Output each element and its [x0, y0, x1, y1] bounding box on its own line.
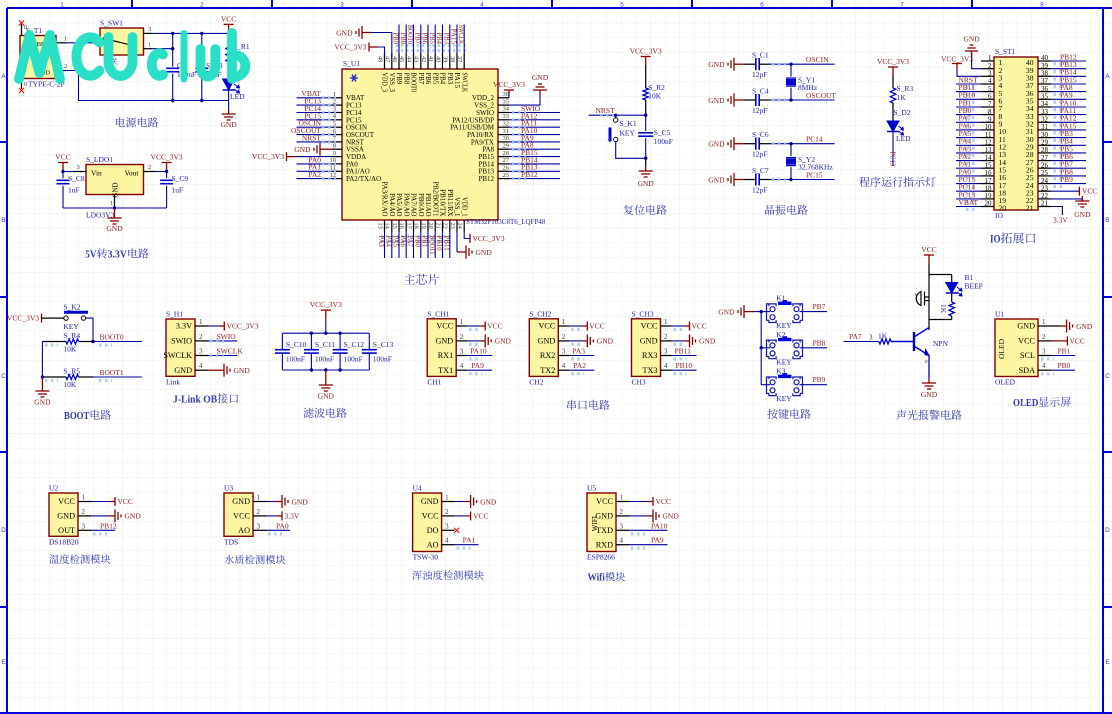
wire net PB5 from ST1.28 — [1051, 152, 1086, 154]
wire LED to R 1K — [951, 275, 953, 283]
svg-text:C: C — [1, 373, 6, 380]
pin H1.2 — [195, 340, 208, 342]
pin ST1.12 — [981, 144, 994, 146]
svg-text:1: 1 — [257, 494, 261, 502]
svg-text:KEY: KEY — [63, 322, 79, 331]
title 按键电路 — [767, 409, 777, 419]
svg-text:BEEP: BEEP — [965, 282, 983, 291]
junction VCC rail C3 — [200, 32, 203, 35]
ground GND for S_C6 — [728, 137, 734, 150]
pin CH3.1 — [661, 325, 672, 327]
power VCC_3V3 at U1 pin24 — [464, 232, 470, 239]
pin CH1.4 — [456, 369, 467, 371]
pin ST1.15 — [981, 167, 994, 169]
svg-text:PA7: PA7 — [849, 332, 862, 341]
wire net PA8 from U1.29 — [509, 148, 560, 150]
pin U1.12 PA2/TX/AO — [332, 178, 342, 180]
wire net PA0 at U3.3 — [266, 529, 290, 531]
ground GND at ST1.22 — [1051, 198, 1082, 200]
svg-text:VCC_3V3: VCC_3V3 — [151, 153, 183, 162]
svg-text:48: 48 — [376, 56, 383, 62]
svg-text:PA2/TX/AO: PA2/TX/AO — [346, 175, 381, 183]
capacitor S_C10 100nF — [281, 333, 283, 349]
chip type marker asterisk — [350, 75, 358, 82]
wire net PB3 from ST1.30 — [1051, 137, 1086, 139]
wire net PA3 to ST1.13 — [956, 152, 981, 154]
wire R1 to LED D1 — [228, 62, 230, 79]
connector CH2 body — [529, 319, 558, 377]
svg-text:S_C9: S_C9 — [172, 174, 189, 183]
pin H1.4 — [195, 369, 208, 371]
svg-text:GND: GND — [435, 337, 453, 346]
pin U1.47 VSS_3 — [391, 54, 393, 70]
ground GND at CH1.2 — [467, 340, 480, 342]
module U3 TDS body — [224, 493, 253, 536]
svg-text:20: 20 — [999, 204, 1007, 213]
wire net PB7 to U1.43 — [420, 25, 422, 54]
svg-text:45: 45 — [398, 56, 405, 62]
module U4 TSW-30 body — [413, 493, 442, 552]
svg-text:S_CH1: S_CH1 — [427, 309, 449, 318]
wire net PA5 to ST1.11 — [956, 137, 981, 139]
svg-text:VCC: VCC — [692, 322, 707, 331]
svg-text:SCL: SCL — [1020, 351, 1035, 360]
svg-text:2: 2 — [200, 2, 204, 9]
svg-text:AO: AO — [427, 540, 439, 549]
resistor S_R3 1K — [890, 88, 895, 103]
wire SW1.1 down to cap C2 branch — [152, 48, 173, 50]
svg-text:U2: U2 — [49, 484, 58, 493]
pin U4.4 — [442, 544, 455, 546]
pin U1.46 PB9 — [398, 54, 400, 70]
svg-text:1: 1 — [148, 41, 151, 48]
svg-text:VCC: VCC — [641, 322, 658, 331]
svg-text:40: 40 — [434, 56, 441, 62]
wire K1 top to NRST — [615, 115, 617, 118]
svg-text:3.3V: 3.3V — [108, 249, 127, 261]
svg-text:PB9: PB9 — [1060, 175, 1073, 184]
junction BOOT0 — [91, 340, 94, 343]
svg-text:3: 3 — [869, 334, 873, 342]
svg-text:OUT: OUT — [58, 526, 75, 535]
pin U1.23 VSS_1 — [456, 220, 458, 232]
svg-text:PB10: PB10 — [676, 361, 693, 370]
pin CH3.3 — [661, 355, 672, 357]
ground GND filter — [319, 380, 333, 391]
wire net OSCOUT to U1.6 — [297, 134, 333, 136]
pin U1.1 VBAT — [332, 97, 342, 99]
svg-text:PB12: PB12 — [100, 521, 117, 530]
connector H1 J-Link body — [166, 319, 195, 376]
wire net PA4 from U1.14 — [391, 232, 393, 259]
svg-text:24: 24 — [456, 223, 463, 230]
svg-text:TXD: TXD — [596, 526, 613, 535]
power VCC_3V3 filter — [321, 310, 331, 319]
wire C2 branch vertical — [172, 33, 174, 66]
wire net PA2 to ST1.14 — [956, 160, 981, 162]
svg-text:100nF: 100nF — [373, 355, 392, 364]
svg-text:100nF: 100nF — [315, 355, 334, 364]
wire net PC15 to ST1.17 — [956, 183, 981, 185]
svg-text:PA5/AO: PA5/AO — [395, 193, 402, 216]
pin ST1.38 — [1038, 75, 1051, 77]
capacitor S_C8 1uF — [62, 172, 64, 179]
svg-text:GND: GND — [495, 337, 512, 346]
svg-text:GND: GND — [921, 390, 938, 399]
pin U5.4 — [616, 544, 629, 546]
svg-text:4: 4 — [480, 2, 484, 9]
svg-text:E: E — [1, 659, 5, 666]
svg-text:VCC: VCC — [538, 322, 555, 331]
wire net PA0 to U1.10 — [297, 163, 333, 165]
svg-text:SWIO: SWIO — [217, 332, 237, 341]
svg-text:2: 2 — [445, 508, 449, 516]
pin ST1.26 — [1038, 167, 1051, 169]
pin U1.31 PA10/RX — [498, 134, 509, 136]
svg-text:CH2: CH2 — [529, 377, 543, 386]
svg-text:10K: 10K — [63, 345, 77, 354]
wire net PC14 to U1.3 — [297, 112, 333, 114]
pin ST1.32 — [1038, 121, 1051, 123]
pin U1.18 PB0/AO — [420, 220, 422, 232]
wire net PB6 to U1.42 — [427, 25, 429, 54]
wire net PA0 to ST1.16 — [956, 175, 981, 177]
wire net BOOT0 — [93, 341, 142, 343]
svg-text:PB10/TX: PB10/TX — [439, 189, 446, 216]
wire net PB12 at U2.3 — [91, 529, 115, 531]
selection dashes bottom pins — [381, 235, 452, 238]
svg-text:GND: GND — [718, 307, 735, 316]
wire NRST — [589, 114, 646, 116]
pin T1 shield bottom — [21, 79, 23, 90]
svg-text:BOOT: BOOT — [64, 410, 90, 422]
pin U1.45 PB8 — [405, 54, 407, 70]
wire net BOOT1 — [93, 376, 142, 378]
svg-text:PB12: PB12 — [478, 175, 494, 183]
pin U1.9 VDDA — [332, 156, 342, 158]
svg-text:J-Link OB: J-Link OB — [173, 394, 217, 406]
wire net SWIO from U1.34 — [509, 112, 560, 114]
svg-text:PB9: PB9 — [813, 375, 826, 384]
svg-text:20: 20 — [985, 200, 993, 208]
svg-text:3: 3 — [199, 348, 203, 356]
svg-text:PA6/AO: PA6/AO — [402, 193, 409, 216]
ground GND at U1 pin8 VSSA — [320, 148, 332, 150]
svg-text:10K: 10K — [648, 92, 662, 101]
svg-text:PA9: PA9 — [651, 536, 664, 545]
svg-text:NPN: NPN — [933, 339, 949, 348]
svg-text:VCC: VCC — [55, 153, 70, 162]
svg-text:1: 1 — [60, 2, 64, 9]
title 声光报警电路 — [896, 410, 906, 420]
ground GND at CH2.2 — [569, 340, 582, 342]
pin SW1.3 — [144, 32, 153, 34]
svg-text:1: 1 — [64, 36, 67, 43]
wire net PB12 from ST1.40 — [1051, 60, 1086, 62]
svg-text:OLED: OLED — [1013, 397, 1038, 409]
wire net PA6 from U1.16 — [405, 232, 407, 259]
svg-text:BOOT0: BOOT0 — [100, 333, 124, 342]
svg-text:16: 16 — [398, 223, 405, 229]
pin U1.19 PB1/AO — [427, 220, 429, 232]
junction rail C3 — [200, 99, 203, 102]
wire VCC_3V3 to R3 — [892, 76, 894, 88]
wire net PA5 from U1.15 — [398, 232, 400, 259]
pin U1.15 PA5/AO — [398, 220, 400, 232]
pin ST1.7 — [981, 106, 994, 108]
svg-text:3.3V: 3.3V — [176, 322, 192, 331]
pin CH2.3 — [558, 355, 569, 357]
svg-text:KEY: KEY — [620, 129, 636, 138]
pin U1.5 OSCIN — [332, 126, 342, 128]
wire net PB8 from ST1.25 — [1051, 175, 1086, 177]
pin U4.3 — [442, 529, 455, 531]
wire net SWCLK to U1.37 — [463, 25, 465, 54]
buzzer B1 BEEP — [916, 292, 921, 306]
pin U1.13 PA3/RX/AO — [384, 220, 386, 232]
resistor S_R4 10K — [42, 341, 66, 343]
pin U1(OLED).3 — [1038, 355, 1051, 357]
svg-text:19: 19 — [420, 223, 427, 229]
wire net VBAT to ST1.20 — [956, 206, 981, 208]
svg-text:PB1: PB1 — [1058, 347, 1071, 356]
wire left bus down — [41, 342, 43, 378]
logo MCUclub — [19, 33, 245, 79]
wire net PA3 — [569, 355, 594, 357]
pin ST1.37 — [1038, 83, 1051, 85]
connector CH3 body — [632, 319, 661, 377]
power VCC_3V3 reset — [641, 57, 651, 66]
svg-text:S_SW1: S_SW1 — [100, 19, 123, 28]
pin U1.21 PB10/TX — [442, 220, 444, 232]
svg-text:3: 3 — [1042, 348, 1046, 356]
svg-text:1K: 1K — [939, 304, 948, 314]
svg-text:23: 23 — [449, 223, 456, 229]
ground GND at H1.4 — [208, 369, 224, 371]
label SW1 value — [104, 58, 111, 64]
svg-text:VCC: VCC — [1070, 336, 1085, 345]
wire net PA12 from ST1.32 — [1051, 121, 1086, 123]
svg-text:PB3: PB3 — [446, 73, 453, 85]
wire filter to GND — [325, 370, 327, 380]
svg-text:1uF: 1uF — [172, 186, 184, 195]
svg-text:PC13: PC13 — [888, 152, 897, 167]
svg-text:BOOT1: BOOT1 — [100, 368, 124, 377]
title 浑浊度检测模块 — [412, 570, 422, 579]
svg-text:GND: GND — [708, 96, 725, 105]
svg-text:VCC_3V3: VCC_3V3 — [473, 234, 505, 243]
svg-text:PA4/AO: PA4/AO — [388, 193, 395, 216]
wire net PC13 to ST1.19 — [956, 198, 981, 200]
svg-text:SWCLK: SWCLK — [457, 25, 466, 44]
svg-text:S_LDO1: S_LDO1 — [86, 155, 113, 164]
svg-text:43: 43 — [413, 56, 420, 62]
svg-text:PB9: PB9 — [395, 73, 402, 85]
title 主芯片 — [404, 274, 415, 284]
capacitor S_C13 100nF — [368, 333, 370, 349]
wire net PA9 from ST1.35 — [1051, 98, 1086, 100]
power VCC_3V3 at U1 pin48 — [378, 47, 385, 57]
pin ST1.5 — [981, 91, 994, 93]
svg-text:4: 4 — [620, 537, 624, 545]
ground rail LDO — [63, 207, 167, 209]
wire net PB8 — [800, 347, 828, 349]
svg-text:NRST: NRST — [596, 106, 616, 115]
svg-text:PC14: PC14 — [806, 135, 823, 144]
pin U1.16 PA6/AO — [405, 220, 407, 232]
power VCC alarm — [924, 255, 934, 264]
wire net PB4 to U1.40 — [442, 25, 444, 54]
svg-text:GND: GND — [220, 120, 237, 129]
pin ST1.29 — [1038, 144, 1051, 146]
pin U1.33 PA12/USB/DP — [498, 119, 509, 121]
wire C3 branch vertical — [201, 33, 203, 66]
svg-text:VCC: VCC — [233, 512, 250, 521]
pin LDO1.2 — [144, 171, 156, 173]
power VCC at CH3.1 — [672, 325, 685, 327]
svg-text:Wifi: Wifi — [588, 573, 605, 584]
svg-text:GND: GND — [112, 182, 120, 197]
svg-text:OLED: OLED — [997, 338, 1006, 359]
svg-text:1: 1 — [1042, 318, 1046, 326]
svg-text:S_C1: S_C1 — [752, 51, 769, 60]
pin ST1.33 — [1038, 114, 1051, 116]
svg-text:VCC_3V3: VCC_3V3 — [310, 300, 342, 309]
svg-text:SWCLK: SWCLK — [217, 347, 244, 356]
pin U1.24 VDD_1 — [463, 220, 465, 232]
svg-text:8: 8 — [1040, 2, 1044, 9]
power 3.3V at U3.2 — [266, 515, 277, 517]
svg-text:3: 3 — [148, 26, 151, 33]
svg-text:TSW-30: TSW-30 — [413, 553, 439, 562]
wire net PB7 — [800, 311, 828, 313]
junction C8 top — [61, 170, 64, 173]
svg-text:S_U1: S_U1 — [343, 59, 360, 68]
svg-text:GND: GND — [640, 337, 658, 346]
wire net PA11 from ST1.33 — [1051, 114, 1086, 116]
pin ST1.24 — [1038, 183, 1051, 185]
svg-text:VDD_1: VDD_1 — [460, 197, 467, 217]
crystal S_Y1 8MHz — [790, 64, 792, 76]
svg-text:1: 1 — [82, 494, 86, 502]
svg-text:VDD_3: VDD_3 — [381, 73, 388, 93]
svg-text:GND: GND — [125, 512, 142, 521]
svg-text:STM32F103C8T6_LQFP48: STM32F103C8T6_LQFP48 — [466, 218, 546, 226]
wire net PB14 from ST1.38 — [1051, 75, 1086, 77]
wire PC14 — [770, 143, 834, 145]
LED alarm — [946, 283, 962, 297]
pin ST1.17 — [981, 183, 994, 185]
pin U1.42 PB6 — [427, 54, 429, 70]
pin U1.7 NRST — [332, 141, 342, 143]
junction LDO gnd — [113, 206, 116, 209]
wire net PB14 from U1.27 — [509, 163, 560, 165]
svg-text:PB7: PB7 — [813, 302, 826, 311]
svg-text:VCC: VCC — [589, 322, 604, 331]
power VCC at U4.2 — [455, 515, 466, 517]
no-connect at U4.3 — [454, 528, 459, 533]
svg-text:VSS_3: VSS_3 — [388, 73, 395, 93]
pin H1.1 — [195, 325, 208, 327]
svg-text:PA10: PA10 — [651, 521, 668, 530]
svg-text:PA3/RX/AO: PA3/RX/AO — [381, 181, 388, 216]
svg-text:TX3: TX3 — [642, 366, 657, 375]
svg-text:U4: U4 — [413, 484, 422, 493]
connector ST1 40-pin header body — [994, 57, 1038, 210]
pin U5.2 — [616, 515, 629, 517]
pin U4.2 — [442, 515, 455, 517]
pin U1.22 PB11/RX — [449, 220, 451, 232]
pin U1.17 PA7/AO — [413, 220, 415, 232]
svg-text:VCC: VCC — [221, 14, 236, 23]
pin CH2.2 — [558, 340, 569, 342]
wire net PC15 to U1.4 — [297, 119, 333, 121]
svg-text:PA10: PA10 — [470, 347, 487, 356]
svg-text:8: 8 — [333, 142, 336, 149]
svg-text:GND: GND — [421, 497, 439, 506]
pin ST1.22 — [1038, 198, 1051, 200]
power port VCC_3V3 LDO out — [162, 163, 172, 172]
wire net PB15 from U1.28 — [509, 156, 560, 158]
svg-text:TX1: TX1 — [438, 366, 453, 375]
svg-text:GND: GND — [663, 512, 680, 521]
LED S_D1 — [223, 79, 240, 93]
key K1 push button — [761, 311, 770, 313]
svg-text:1: 1 — [664, 318, 668, 326]
title 滤波电路 — [303, 408, 313, 418]
svg-text:VCC: VCC — [118, 497, 133, 506]
pin U1.14 PA4/AO — [391, 220, 393, 232]
pin ST1.25 — [1038, 175, 1051, 177]
no-connect X on T1 bottom pin — [19, 88, 24, 93]
svg-text:PB0: PB0 — [1058, 361, 1071, 370]
svg-text:GND: GND — [708, 60, 725, 69]
pin ST1.18 — [981, 190, 994, 192]
svg-text:4: 4 — [199, 362, 203, 370]
power VCC_3V3 at ST1.3 — [957, 69, 981, 77]
svg-text:3: 3 — [562, 348, 566, 356]
svg-text:PA15: PA15 — [453, 73, 460, 89]
svg-text:4: 4 — [460, 362, 464, 370]
svg-text:1: 1 — [562, 318, 566, 326]
wire base — [891, 341, 914, 343]
svg-text:12pF: 12pF — [752, 106, 767, 115]
svg-text:LED: LED — [230, 92, 245, 101]
capacitor S_C9 1uF — [166, 172, 168, 179]
svg-text:2: 2 — [562, 333, 566, 341]
wire D2 to PC13 — [892, 132, 894, 167]
junction VCC rail C2 — [171, 32, 174, 35]
wire VCC down — [928, 264, 930, 275]
svg-text:e: e — [925, 359, 928, 365]
pin U1.32 PA11/USB/DM — [498, 126, 509, 128]
svg-text:20: 20 — [427, 223, 434, 229]
svg-text:VCC_3V3: VCC_3V3 — [493, 80, 525, 89]
svg-text:S_R4: S_R4 — [63, 331, 80, 340]
svg-text:Vout: Vout — [124, 169, 139, 178]
svg-text:D: D — [1105, 527, 1110, 534]
svg-text:TX2: TX2 — [540, 366, 555, 375]
junction C5/K1 bottom — [644, 157, 647, 160]
svg-text:21: 21 — [1041, 200, 1049, 208]
wire K1 bottom — [616, 142, 646, 159]
svg-text:GND: GND — [292, 497, 309, 506]
pin ST1.19 — [981, 198, 994, 200]
pin ST1.28 — [1038, 152, 1051, 154]
wire LED to GND — [228, 90, 230, 109]
pin U2.2 — [78, 515, 91, 517]
svg-text:VCC: VCC — [596, 497, 613, 506]
